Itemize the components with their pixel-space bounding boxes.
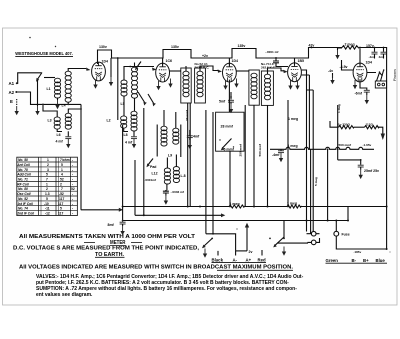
svg-text:Add Coil: Add Coil [16, 173, 31, 177]
svg-text:No. 70: No. 70 [18, 168, 28, 172]
wire L3 bottom jog [57, 129, 62, 131]
svg-text:-: - [72, 192, 73, 196]
svg-text:-: - [72, 212, 73, 216]
capacitor 4 mf antenna [56, 131, 72, 148]
svg-text:4 mf: 4 mf [56, 140, 64, 144]
svg-text:-: - [72, 197, 73, 201]
svg-text:7/ohm: 7/ohm [60, 158, 70, 162]
svg-text:-: - [72, 182, 73, 186]
oscillator coil upper windings [157, 110, 181, 158]
valve 1D4 RF amp [92, 58, 114, 89]
svg-text:Red: Red [258, 258, 266, 263]
svg-text:-1.65v: -1.65v [363, 143, 372, 147]
svg-text:130v: 130v [99, 45, 107, 49]
svg-text:No. 80: No. 80 [18, 187, 28, 191]
svg-text:All MEASUREMENTS TAKEN WITH A: All MEASUREMENTS TAKEN WITH A 1000 OHM P… [19, 234, 195, 240]
svg-text:117: 117 [58, 202, 63, 206]
phones jack [367, 69, 387, 88]
svg-text:L3: L3 [48, 119, 52, 123]
wire K6 plate to IF1 [170, 70, 181, 72]
resistor 230 ohm [330, 121, 354, 129]
resistor 1 meg b [287, 205, 301, 208]
svg-text:-4mf: -4mf [272, 153, 280, 157]
svg-text:.0001mf: .0001mf [145, 178, 157, 182]
svg-text:E: E [10, 99, 13, 104]
svg-text:-.0001 mf: -.0001 mf [265, 50, 279, 54]
svg-text:-: - [72, 202, 73, 206]
terminal A1 [9, 73, 42, 86]
wire oscillator riser [143, 108, 145, 215]
wire right riser pair [302, 75, 314, 231]
svg-text:-4.5v: -4.5v [340, 65, 348, 69]
svg-text:25mf 25v: 25mf 25v [364, 169, 379, 173]
svg-text:1C6: 1C6 [166, 59, 172, 63]
svg-text:A1: A1 [9, 81, 15, 86]
svg-text:B+: B+ [363, 258, 369, 263]
wire A+ lead arrow [236, 223, 253, 254]
capacitor 8 mf [108, 125, 126, 235]
svg-text:Osc Coil: Osc Coil [17, 192, 30, 196]
capacitor -6 mf output [355, 79, 370, 104]
valve 1D4 output [353, 49, 372, 90]
trimmer arrow antenna [35, 73, 42, 116]
coil L4 [62, 68, 91, 108]
svg-text:112Ω: 112Ω [366, 122, 374, 126]
svg-text:2 meg: 2 meg [345, 43, 355, 47]
svg-text:L6: L6 [57, 133, 61, 137]
resistor 2 meg [342, 46, 360, 49]
note line meter [84, 240, 142, 246]
svg-text:No. 52: No. 52 [18, 197, 28, 201]
svg-text:5: 5 [61, 163, 63, 167]
svg-text:WESTINGHOUSE MODEL 407.: WESTINGHOUSE MODEL 407. [15, 51, 73, 56]
svg-text:1.3: 1.3 [45, 192, 50, 196]
wire 1D4 plate to IF2 [236, 70, 249, 72]
pilot jacks [307, 231, 320, 244]
svg-text:1 meg: 1 meg [230, 202, 240, 206]
wire 1B5 right connections [302, 70, 307, 232]
capacitor 4 mf oscillator [125, 131, 137, 148]
valve 1D4 IF amp [223, 58, 239, 90]
terminal E earth [10, 99, 19, 115]
svg-text:1 meg: 1 meg [288, 144, 298, 148]
svg-text:4: 4 [61, 173, 63, 177]
svg-text:A2: A2 [9, 90, 15, 95]
bus mid arm [135, 160, 225, 217]
svg-text:117: 117 [58, 212, 63, 216]
capacitor .0003 mf oscillator [163, 184, 185, 205]
svg-text:All VOLTAGES INDICATED ARE MEA: All VOLTAGES INDICATED ARE MEASURED WITH… [19, 265, 294, 271]
wire riser detector [287, 100, 289, 207]
svg-text:B-: B- [352, 258, 357, 263]
fuse [334, 221, 387, 255]
bus A left arm [81, 208, 123, 212]
svg-text:-: - [72, 168, 73, 172]
scan speckles [29, 37, 390, 253]
svg-text:A+: A+ [246, 258, 252, 263]
coil L2 [107, 96, 129, 132]
trimmer arrow oscillator grid [124, 62, 157, 81]
svg-text:262.5 K.C.: 262.5 K.C. [261, 65, 276, 69]
svg-text:1D4: 1D4 [102, 60, 108, 64]
svg-text:2: 2 [47, 163, 49, 167]
svg-text:Black: Black [212, 258, 224, 263]
svg-text:-10: -10 [44, 202, 49, 206]
svg-text:-11: -11 [45, 207, 50, 211]
svg-text:1st IF Coil: 1st IF Coil [17, 202, 33, 206]
svg-text:4mf: 4mf [193, 135, 200, 139]
svg-text:L9: L9 [168, 154, 172, 158]
wire IF1 windings down [188, 103, 191, 207]
svg-text:RF Coil: RF Coil [17, 182, 29, 186]
svg-text:D.C. VOLTAGE S ARE MEASURED FR: D.C. VOLTAGE S ARE MEASURED FROM THE POI… [13, 246, 200, 252]
svg-text:L12: L12 [152, 172, 158, 176]
svg-text:1: 1 [47, 158, 49, 162]
switch wiper arrows wave change [138, 92, 156, 106]
svg-text:2: 2 [46, 187, 48, 191]
svg-text:250 mmf: 250 mmf [238, 143, 242, 157]
capacitor 25 mf 25v [358, 165, 379, 179]
svg-text:52: 52 [71, 187, 75, 191]
svg-text:ent values see diagram.: ent values see diagram. [36, 292, 93, 298]
svg-text:2nd IF Coil: 2nd IF Coil [16, 212, 34, 216]
capacitor .0001 mf on bus [265, 50, 288, 67]
wire IF2 windings down [254, 105, 268, 206]
grid bias arrow output [335, 48, 353, 70]
svg-text:No. 50: No. 50 [18, 158, 28, 162]
svg-text:117: 117 [59, 197, 64, 201]
coil L3 [42, 104, 60, 130]
svg-text:157v: 157v [366, 44, 374, 48]
wire IF1 primary top [185, 66, 187, 71]
svg-text:Green: Green [326, 258, 339, 263]
coil L8 [124, 98, 138, 137]
wire IF2 secondary to 1B5 grid [268, 68, 288, 74]
svg-text:8mf: 8mf [108, 223, 115, 227]
svg-text:30 mmf: 30 mmf [185, 109, 189, 121]
svg-text:L8: L8 [124, 133, 128, 137]
svg-text:1 meg: 1 meg [337, 104, 341, 113]
trimmer box 28 mmf [216, 80, 244, 205]
oscillator coil lower windings [164, 155, 179, 185]
svg-text:Pad: Pad [150, 165, 156, 169]
switch contacts right [269, 221, 307, 256]
svg-text:Fuse: Fuse [342, 233, 350, 237]
bus A mid [245, 206, 287, 208]
svg-text:135v: 135v [238, 44, 246, 48]
svg-text:L2: L2 [107, 119, 111, 123]
svg-text:L.8: L.8 [181, 174, 186, 178]
wire B+ top bus [98, 48, 343, 65]
padder trimmer [145, 159, 186, 183]
coil L5 secondary [131, 67, 137, 98]
svg-text:5: 5 [46, 197, 48, 201]
terminal A2 [9, 90, 82, 104]
svg-text:1: 1 [46, 182, 48, 186]
svg-text:5mf: 5mf [219, 100, 226, 104]
svg-text:5 mmf: 5 mmf [224, 147, 235, 151]
coil L5 primary [121, 80, 128, 106]
svg-text:.185v: .185v [354, 250, 362, 254]
battery switch bracket [202, 234, 236, 258]
resistor 1 meg a [229, 205, 245, 208]
svg-text:28 mmf: 28 mmf [221, 125, 234, 129]
svg-text:-: - [72, 158, 73, 162]
capacitor 4 mf IF [185, 109, 200, 149]
wire A1 to L1 [44, 77, 55, 79]
battery labels A [212, 250, 267, 263]
svg-text:No. 71: No. 71 [18, 178, 28, 182]
svg-text:1D4: 1D4 [232, 59, 238, 63]
IF transformer 2 can [249, 62, 276, 105]
capacitor 4 mf plate pair [369, 48, 387, 59]
coil L1 [47, 78, 61, 109]
svg-text:-: - [72, 207, 73, 211]
capacitor -4 mf avc [272, 149, 284, 162]
svg-text:52: 52 [60, 178, 64, 182]
wavy AVC line [270, 147, 374, 149]
svg-text:135v: 135v [171, 45, 179, 49]
wire riser 250 mmf [244, 105, 246, 207]
svg-text:7: 7 [46, 178, 48, 182]
wire detector bias [328, 69, 335, 84]
svg-text:-12: -12 [45, 212, 50, 216]
svg-text:-4v: -4v [328, 69, 333, 73]
svg-text:-: - [72, 178, 73, 182]
svg-text:7: 7 [61, 187, 63, 191]
svg-text:L4: L4 [62, 104, 66, 108]
svg-text:-.0003 mf: -.0003 mf [171, 190, 185, 194]
svg-text:4mf: 4mf [379, 55, 385, 59]
svg-text:5: 5 [60, 207, 62, 211]
IF transformer 1 can [181, 62, 210, 103]
valve 1B5 detector [288, 58, 304, 90]
svg-text:3: 3 [47, 168, 49, 172]
svg-text:4 mf: 4 mf [125, 141, 133, 145]
svg-text:1 meg: 1 meg [287, 201, 297, 205]
svg-text:-52: -52 [59, 192, 64, 196]
svg-text:1: 1 [61, 168, 63, 172]
svg-text:A-: A- [233, 258, 238, 263]
svg-text:2v: 2v [249, 250, 253, 254]
capacitor 5 mf cathode [219, 92, 234, 113]
resistance table [16, 157, 77, 215]
resistor 112 ohm [354, 122, 385, 140]
svg-text:-1v 230Ω: -1v 230Ω [337, 122, 350, 126]
svg-text:No. 74: No. 74 [18, 207, 28, 211]
svg-text:1B5: 1B5 [298, 59, 304, 63]
wire left riser to bus A [80, 104, 82, 209]
svg-text:500 mmf: 500 mmf [258, 143, 262, 157]
valve 1C6 converter [156, 58, 173, 90]
svg-text:-: - [72, 173, 73, 177]
valves paragraph [36, 274, 304, 298]
coil L6 secondary [57, 108, 82, 137]
svg-text:2: 2 [60, 182, 62, 186]
bus B earth line [123, 207, 348, 221]
svg-text:-6mf: -6mf [355, 92, 363, 96]
wire avc risers [311, 105, 338, 234]
bus A right [301, 206, 387, 208]
svg-text:5 meg: 5 meg [314, 177, 318, 186]
svg-text:Phones: Phones [393, 69, 397, 81]
svg-text:-4mf: -4mf [369, 55, 377, 59]
wire bias network [338, 160, 361, 165]
wire IF can riser [206, 110, 213, 234]
svg-text:+2v: +2v [202, 54, 208, 58]
svg-text:-: - [72, 163, 73, 167]
wire IF1 secondary to 1D4 grid [200, 66, 222, 73]
svg-text:Ant Coil: Ant Coil [16, 163, 30, 167]
wire riser from bus to L5 [117, 58, 119, 120]
svg-text:500 mmf: 500 mmf [339, 143, 353, 147]
svg-text:5: 5 [46, 173, 48, 177]
svg-text:Blue: Blue [376, 258, 386, 263]
svg-text:L1: L1 [47, 87, 51, 91]
svg-text:1 meg: 1 meg [288, 117, 298, 121]
battery labels B [326, 258, 388, 263]
wire plate supply right [360, 48, 387, 250]
note to earth [95, 252, 125, 258]
svg-text:1D4: 1D4 [366, 61, 372, 65]
bus A earth line [123, 206, 229, 208]
